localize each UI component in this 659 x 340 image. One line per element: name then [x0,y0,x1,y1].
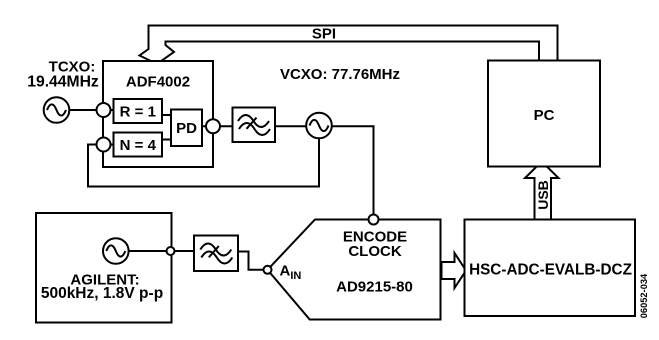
svg-text:N = 4: N = 4 [120,137,157,154]
wire TCXO output to R divider input [70,109,114,111]
svg-text:R = 1: R = 1 [120,104,156,121]
svg-text:PD: PD [176,120,197,137]
data bus arrow from ADC outputs to HSC-ADC-EVALB-DCZ [442,253,467,288]
node encode clock input [369,215,379,225]
wire VCXO feedback to N divider [88,138,319,186]
loop filter F1 [233,108,276,143]
wire VCXO output to encode clock input [332,126,374,219]
signal generator box AGILENT [36,213,172,323]
svg-text:500kHz, 1.8V p-p: 500kHz, 1.8V p-p [41,285,163,302]
oscillator VCXO Y2 [306,113,332,139]
oscillator signal generator [103,238,129,264]
N divider box N = 4 [114,133,163,157]
wire R divider to PD [162,114,171,116]
node PD output [206,119,220,133]
svg-text:AD9215-80: AD9215-80 [336,279,413,296]
svg-text:HSC-ADC-EVALB-DCZ: HSC-ADC-EVALB-DCZ [469,262,632,279]
svg-text:PC: PC [534,107,555,124]
SPI bus arrow from PC to ADF4002 [140,26,558,65]
node N divider input [97,138,111,152]
input bandpass filter F2 [194,236,238,272]
wire loop filter to VCXO [275,125,307,127]
phase detector box PD [171,110,202,147]
svg-text:VCXO: 77.76MHz: VCXO: 77.76MHz [280,66,400,83]
oscillator TCXO Y1 [44,97,70,123]
node R divider input [97,103,111,117]
wire PD output to loop filter [202,125,233,127]
svg-text:CLOCK: CLOCK [348,243,401,260]
wire input filter to AIN [238,252,268,270]
USB bus arrow from HSC-ADC-EVALB-DCZ to PC [525,162,559,221]
R divider box R = 1 [114,99,163,123]
svg-text:SPI: SPI [312,26,336,43]
node AIN input [264,266,272,274]
svg-text:USB: USB [535,180,551,210]
wire N divider to PD [162,139,171,141]
ADC AD9215-80 pentagon U2 [268,220,441,320]
node generator output [167,247,175,255]
wire generator to input filter [129,250,194,252]
svg-text:06052-034: 06052-034 [639,273,649,318]
svg-text:19.44MHz: 19.44MHz [27,74,99,91]
ADF4002 PLL box U1 [103,61,213,167]
capture board box HSC-ADC-EVALB-DCZ U3 [465,220,636,317]
PC box U4 [488,61,600,167]
svg-text:ADF4002: ADF4002 [126,74,190,91]
